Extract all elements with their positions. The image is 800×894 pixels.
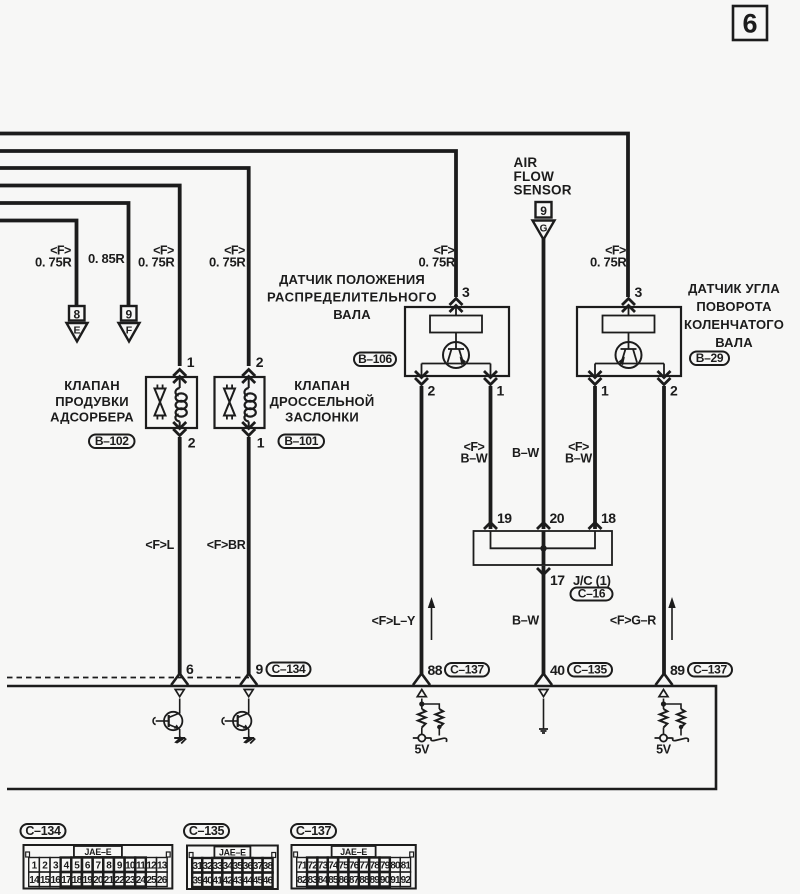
pull-up resistors and 5V at ECU pin 88 [413,699,447,757]
svg-text:17: 17 [550,572,565,588]
ECU pin 40 input triangle [539,690,548,697]
wire B-29 pin 1 to J/C pin 18 [593,386,597,529]
svg-text:G: G [540,224,548,235]
svg-text:E: E [73,325,80,337]
valve B-102 pin 1 chevrons [173,354,195,383]
wire label B-W center [512,446,539,460]
svg-text:0. 75R: 0. 75R [138,255,175,270]
direction arrow at pin 88 [428,597,435,640]
svg-text:ПРОДУВКИ: ПРОДУВКИ [55,394,129,409]
valve B-101 pin 2 chevrons [242,354,264,383]
svg-text:C–135: C–135 [573,663,607,677]
svg-text:SENSOR: SENSOR [514,183,572,198]
svg-text:90: 90 [380,875,391,886]
junction connector J/C(1) C-16 box [474,531,613,565]
svg-text:25: 25 [146,875,157,886]
ECU pin 6 input triangle [175,690,184,697]
svg-text:АДСОРБЕРА: АДСОРБЕРА [50,410,134,425]
svg-text:5V: 5V [414,743,430,757]
svg-text:46: 46 [263,875,274,886]
svg-text:2: 2 [428,383,436,399]
svg-text:11: 11 [136,860,146,871]
svg-text:ДАТЧИК УГЛА: ДАТЧИК УГЛА [688,281,780,296]
wire label F G-R [610,614,656,628]
camshaft position sensor B-106 [405,307,509,376]
B-106 designator [354,352,396,366]
B-106 pin 1 chevrons [484,371,505,399]
svg-text:24: 24 [136,875,147,886]
svg-text:9: 9 [125,307,132,321]
svg-text:40: 40 [550,662,565,678]
AIR FLOW SENSOR label [514,155,572,198]
svg-text:3: 3 [635,284,643,300]
joint connector 9 with triangle F [119,306,140,342]
B-29 pin 3 chevrons [622,284,643,312]
wire from air flow sensor to J/C pin 20 [542,238,546,529]
svg-text:8: 8 [73,307,80,321]
svg-text:РАСПРЕДЕЛИТЕЛЬНОГО: РАСПРЕДЕЛИТЕЛЬНОГО [267,290,437,305]
B-101 designator [279,434,325,448]
wire to joint connector 8/E [0,221,77,307]
joint connector 8 with triangle E [67,306,88,342]
svg-text:B–101: B–101 [284,434,318,448]
ground at ECU pin 40 [539,699,548,734]
wire to B-29 pin 3 [0,134,628,298]
svg-text:38: 38 [263,861,274,872]
svg-text:26: 26 [157,875,168,886]
ECU pin 88 wire end [413,674,430,686]
svg-text:JAE–E: JAE–E [340,847,367,857]
ECU pin 9 wire end [240,674,257,686]
svg-text:<F>L–Y: <F>L–Y [372,614,416,628]
B-106 component name [267,272,437,322]
svg-text:18: 18 [601,510,616,526]
svg-text:20: 20 [550,510,565,526]
wire B-101 pin 1 to ECU pin 9 [247,437,251,675]
wire B-106 pin 2 to ECU pin 88 [420,386,424,675]
J/C pin 17 chevron [537,568,611,588]
svg-text:ДРОССЕЛЬНОЙ: ДРОССЕЛЬНОЙ [270,394,375,409]
svg-text:C–137: C–137 [450,663,484,677]
connector table C-135 [187,846,278,890]
page number box 6 [733,6,767,40]
ECU pin 6 label [186,661,194,677]
connector table C-137 [292,845,416,889]
B-29 pin 1 chevrons [589,371,610,399]
svg-text:81: 81 [401,860,412,871]
pull-up resistors and 5V at ECU pin 89 [655,699,689,757]
transistor at ECU pin 6 [153,699,186,744]
svg-text:9: 9 [540,204,547,218]
svg-text:91: 91 [390,875,401,886]
svg-text:2: 2 [256,354,264,370]
B-102 component name [50,378,134,425]
svg-text:92: 92 [401,875,412,886]
wire B-106 pin 1 to J/C pin 19 [489,386,493,529]
wire J/C pin 17 to ECU pin 40 [542,566,546,675]
connector table C-134 designator [21,824,66,838]
wire label F L-Y [372,614,416,628]
svg-text:0. 75R: 0. 75R [209,255,246,270]
svg-text:<F>BR: <F>BR [207,538,246,552]
svg-text:B–W: B–W [461,452,488,466]
wire to B-102 pin 1 [0,186,180,367]
connector table C-137 designator [291,824,336,838]
ECU pin 89 output triangle [659,690,668,697]
svg-text:12: 12 [146,860,157,871]
wire value label 0.75R B-106 [418,244,455,270]
wire value label 0.85R wire F [88,251,125,266]
svg-text:14: 14 [29,875,40,886]
B-106 pin 2 chevrons [415,371,436,399]
direction arrow at pin 89 [668,597,675,640]
svg-text:B–106: B–106 [358,352,392,366]
J/C pin 18 chevron [589,510,617,529]
svg-text:F: F [126,325,133,337]
wire value label 0.75R B-101 [209,244,246,270]
B-29 pin 2 chevrons [658,371,679,399]
svg-text:JAE–E: JAE–E [84,847,111,857]
B-106 pin 3 chevrons [450,284,471,312]
svg-text:80: 80 [390,860,401,871]
svg-text:ВАЛА: ВАЛА [715,335,753,350]
transistor at ECU pin 9 [222,699,255,744]
J/C pin 19 chevron [484,510,512,529]
B-29 designator [690,351,729,365]
wire label F BR [207,538,246,552]
svg-text:ВАЛА: ВАЛА [333,307,371,322]
svg-text:C–16: C–16 [578,587,606,601]
wire value label 0.75R B-102 [138,244,175,270]
ECU pin 89 wire end [656,674,673,686]
svg-text:19: 19 [497,510,512,526]
B-102 designator [89,434,135,448]
J/C pin 20 chevron [537,510,565,529]
svg-text:3: 3 [462,284,470,300]
wire value label 0.75R B-29 [590,244,627,270]
svg-text:1: 1 [257,435,265,451]
svg-text:88: 88 [428,662,443,678]
svg-text:B–W: B–W [565,452,592,466]
svg-text:B–102: B–102 [95,434,129,448]
dashed continuation line [7,677,249,679]
svg-text:<F>G–R: <F>G–R [610,614,656,628]
svg-text:15: 15 [40,875,51,886]
svg-text:13: 13 [157,860,168,871]
svg-text:9: 9 [256,661,264,677]
svg-text:B–W: B–W [512,446,539,460]
ECU pin 6 wire end [171,674,188,686]
B-29 component name [684,281,784,350]
svg-text:1: 1 [187,354,195,370]
svg-text:C–137: C–137 [693,663,727,677]
svg-text:C–135: C–135 [189,824,225,838]
svg-text:0. 75R: 0. 75R [35,255,72,270]
ECU pin 89 label + C-137 designator [670,662,732,678]
svg-text:КЛАПАН: КЛАПАН [294,378,350,393]
wire B-102 pin 2 to ECU pin 6 [178,437,182,675]
svg-text:0. 75R: 0. 75R [418,255,455,270]
svg-text:B–29: B–29 [696,351,724,365]
svg-text:1: 1 [601,383,609,399]
svg-text:6: 6 [742,9,757,39]
solenoid valve B-101 [215,377,265,428]
wire to B-101 pin 2 [0,168,249,366]
svg-text:6: 6 [186,661,194,677]
wire label F B-W left [461,440,488,466]
svg-text:0. 75R: 0. 75R [590,255,627,270]
crankshaft angle sensor B-29 [577,307,681,376]
valve B-102 pin 2 chevrons [173,422,196,451]
svg-text:ЗАСЛОНКИ: ЗАСЛОНКИ [285,410,359,425]
ECU pin 88 output triangle [417,690,426,697]
svg-text:2: 2 [670,383,678,399]
connector table C-135 designator [184,824,229,838]
valve B-101 pin 1 chevrons [242,422,265,451]
wire label F B-W right [565,440,592,466]
svg-text:79: 79 [380,860,391,871]
svg-text:КОЛЕНЧАТОГО: КОЛЕНЧАТОГО [684,317,784,332]
ECU pin 9 input triangle [244,690,253,697]
wire to B-106 pin 3 [0,151,456,297]
ECU pin 88 label + C-137 designator [428,662,490,678]
C-16 designator [571,587,613,601]
svg-text:1: 1 [497,383,505,399]
svg-text:B–W: B–W [512,614,539,628]
svg-text:ДАТЧИК ПОЛОЖЕНИЯ: ДАТЧИК ПОЛОЖЕНИЯ [279,272,425,287]
engine control unit box [7,686,716,789]
svg-text:0. 85R: 0. 85R [88,251,125,266]
ECU pin 9 label + C-134 designator [256,661,311,677]
svg-text:5V: 5V [656,743,672,757]
wire B-29 pin 2 to ECU pin 89 [662,386,666,675]
svg-text:AIR: AIR [514,155,538,170]
svg-text:2: 2 [188,435,196,451]
svg-text:C–137: C–137 [296,824,332,838]
wire to joint connector 9/F [0,203,129,306]
ECU pin 40 label + C-135 designator [550,662,612,678]
svg-text:JAE–E: JAE–E [219,848,246,858]
svg-text:C–134: C–134 [272,662,306,676]
svg-text:КЛАПАН: КЛАПАН [64,378,120,393]
connector table C-134 [24,845,173,889]
svg-text:ПОВОРОТА: ПОВОРОТА [696,299,772,314]
solenoid valve B-102 [146,377,197,428]
B-101 component name [270,378,375,425]
wire label B-W lower [512,614,539,628]
wire value label 0.75R wire E [35,244,72,270]
svg-text:C–134: C–134 [25,824,61,838]
wire label F L [145,538,174,552]
svg-text:89: 89 [670,662,685,678]
svg-text:<F>L: <F>L [145,538,174,552]
air flow sensor connector 9/G [533,202,555,240]
ECU pin 40 wire end [535,674,552,686]
